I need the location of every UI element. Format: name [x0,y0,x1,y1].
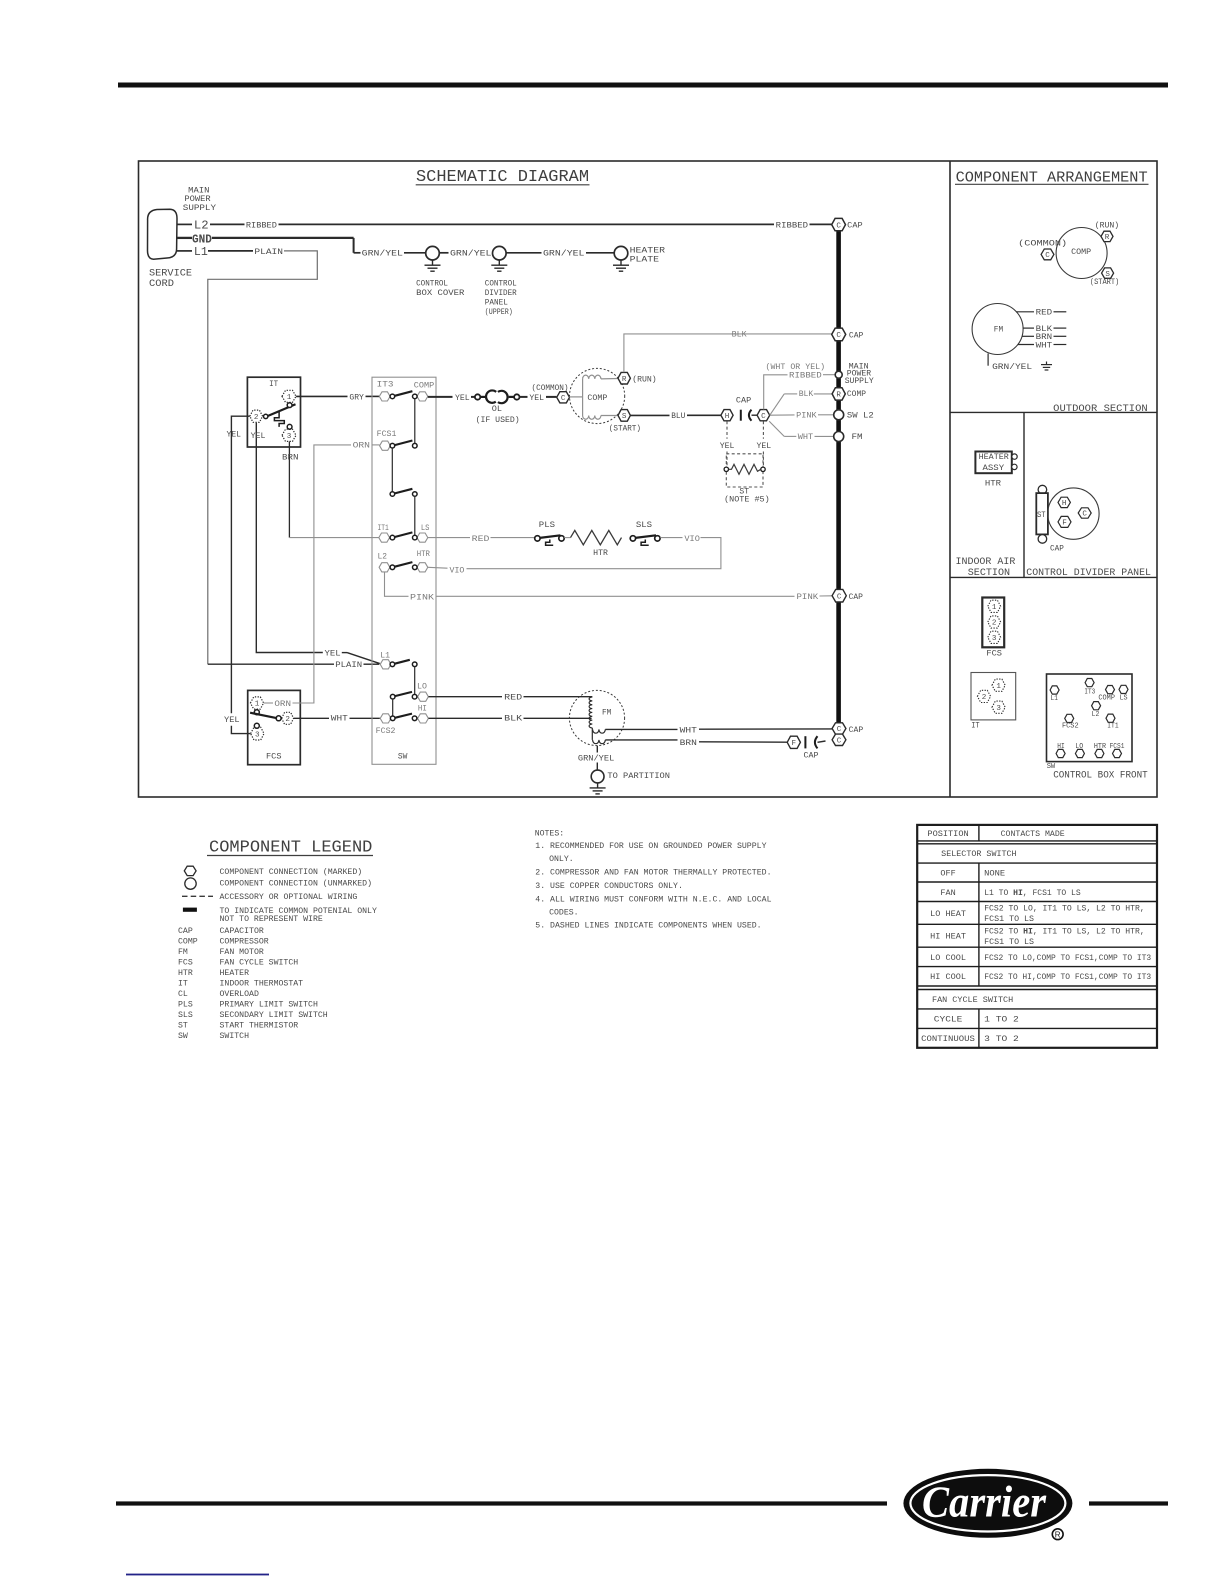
svg-text:H: H [725,413,730,421]
capacitor plate straight [740,410,742,421]
wire GRN/YEL chain [354,252,361,254]
wire brn to IT1 [289,537,378,539]
svg-text:TO PARTITION: TO PARTITION [607,772,670,781]
svg-text:C: C [837,738,842,746]
wire orn riser [293,445,352,703]
svg-text:FM: FM [602,708,611,717]
wire ribbed2 gray [764,375,788,410]
svg-text:GRN/YEL: GRN/YEL [543,249,585,259]
wire blk to R comp [770,394,784,415]
svg-text:PINK: PINK [410,593,434,602]
svg-text:1: 1 [996,683,1001,691]
svg-text:SWITCH: SWITCH [220,1032,250,1041]
svg-text:HTR: HTR [417,550,430,559]
svg-text:RED: RED [504,693,522,702]
primary limit switch PLS [535,536,540,541]
svg-text:BLU: BLU [671,412,685,421]
schematic outer box [139,161,1158,797]
svg-text:YEL: YEL [757,442,772,451]
wire blk to FM [429,717,503,719]
svg-text:IT: IT [269,380,278,389]
bottom rule left [116,1501,887,1505]
svg-text:COMP: COMP [847,390,866,399]
svg-text:COMP: COMP [414,382,434,391]
svg-text:PINK: PINK [797,593,819,602]
svg-text:3: 3 [287,433,292,441]
svg-text:SECTION: SECTION [968,567,1010,578]
svg-text:FCS: FCS [266,753,282,762]
svg-text:POSITION: POSITION [927,830,968,839]
svg-text:FCS: FCS [986,649,1002,658]
outdoor section fan motor [972,304,1023,355]
svg-text:VIO: VIO [684,535,700,544]
terminal FCS-3 [251,727,264,740]
svg-text:3 TO 2: 3 TO 2 [984,1035,1019,1044]
svg-text:F: F [792,740,797,748]
svg-text:WHT: WHT [1036,341,1053,350]
terminal cap C pink [832,589,846,602]
compressor motor COMP [570,368,625,423]
FCS block arr [982,598,1004,648]
bottom blue line [126,1574,269,1576]
svg-text:HTR: HTR [178,969,193,978]
svg-text:L1: L1 [380,651,390,660]
cap circle arr [1048,488,1099,539]
svg-text:CAP: CAP [736,396,751,405]
svg-text:SECONDARY LIMIT SWITCH: SECONDARY LIMIT SWITCH [220,1011,328,1020]
svg-text:COMP: COMP [1098,694,1115,702]
svg-text:GND: GND [192,234,212,247]
svg-text:INDOOR AIR: INDOOR AIR [956,556,1016,567]
svg-text:L2: L2 [1092,711,1100,719]
node control divider panel [493,246,507,260]
wire brn row [605,739,677,741]
svg-text:FAN MOTOR: FAN MOTOR [220,948,264,957]
wire blk from R to cap bus [624,334,832,372]
wire wht (FCS-2 to SW FCS2) [294,717,329,719]
svg-text:R: R [1055,1530,1061,1539]
svg-text:VIO: VIO [450,566,465,575]
svg-text:BLK: BLK [799,390,814,399]
node control box cover [426,246,440,260]
svg-text:R: R [1105,234,1110,242]
arr IT 1 [992,679,1005,691]
svg-text:WHT: WHT [680,726,697,735]
svg-text:C: C [836,332,841,340]
svg-text:SELECTOR SWITCH: SELECTOR SWITCH [941,850,1016,859]
svg-text:BRN: BRN [282,453,299,462]
svg-text:2: 2 [285,716,290,724]
svg-text:BLK: BLK [504,714,522,723]
wire plain bottom to SW L1 [208,663,334,665]
IT block arr [971,673,1016,720]
svg-text:GRY: GRY [349,393,364,402]
svg-text:PANEL: PANEL [485,298,508,307]
capacitor plate curved [749,410,752,421]
svg-text:HTR: HTR [985,480,1001,489]
terminal cap C wht [832,723,846,734]
svg-text:LO HEAT: LO HEAT [930,910,966,919]
svg-text:(RUN): (RUN) [632,374,656,384]
wire yel riser 2 [256,423,323,653]
svg-text:(IF USED): (IF USED) [476,415,520,425]
svg-text:ACCESSORY OR OPTIONAL WIRING: ACCESSORY OR OPTIONAL WIRING [220,893,358,902]
svg-text:SW: SW [398,753,408,762]
svg-text:CONTROL: CONTROL [485,279,517,288]
svg-text:SLS: SLS [636,521,652,530]
svg-text:GRN/YEL: GRN/YEL [992,362,1032,372]
svg-text:CAP: CAP [178,927,193,936]
wire vio loop [467,538,721,569]
arr SW LS [1119,685,1128,693]
wire L2/RIBBED [177,223,193,225]
svg-text:2: 2 [982,694,987,702]
terminal compressor C [557,392,570,403]
svg-text:FAN CYCLE SWITCH: FAN CYCLE SWITCH [932,996,1013,1005]
wire wht row [605,728,677,730]
svg-text:(UPPER): (UPPER) [485,307,513,317]
terminal compressor R [618,372,630,384]
svg-text:Carrier: Carrier [922,1478,1047,1527]
svg-text:CAPACITOR: CAPACITOR [220,927,264,936]
svg-text:SW: SW [178,1032,188,1041]
svg-text:FCS1 TO LS: FCS1 TO LS [984,938,1034,947]
svg-text:FCS2: FCS2 [1062,723,1079,731]
legend circle symbol [185,878,196,889]
switch row IT3-COMP [379,392,390,401]
svg-text:C: C [1045,252,1050,260]
switch row middle [395,489,413,494]
contact IT-1 [287,403,292,408]
svg-text:FAN: FAN [940,889,955,898]
svg-text:CONTROL DIVIDER PANEL: CONTROL DIVIDER PANEL [1026,567,1151,578]
node main power supply [835,371,842,378]
contact FCS-1 [254,710,259,715]
svg-text:5. DASHED LINES INDICATE COMPO: 5. DASHED LINES INDICATE COMPONENTS WHEN… [535,921,761,930]
svg-text:ASSY: ASSY [983,464,1005,473]
wire L1/PLAIN [177,250,193,252]
arr IT 3 [992,701,1005,713]
svg-text:R: R [836,392,841,400]
wire yel to OL [428,396,453,398]
svg-text:PLS: PLS [539,521,555,530]
FCS blade [250,713,277,719]
svg-text:CONTINUOUS: CONTINUOUS [921,1035,975,1044]
svg-text:(WHT OR YEL): (WHT OR YEL) [766,362,826,372]
node FM [834,432,844,442]
svg-text:F: F [1062,520,1067,528]
fan motor FM [569,690,624,745]
svg-text:HEATER: HEATER [220,969,250,978]
svg-text:WHT: WHT [798,433,813,442]
terminal IT-1 [282,390,296,402]
start thermistor arr [1038,485,1047,494]
svg-text:YEL: YEL [251,432,266,441]
capacitor plate straight 2 [804,736,806,748]
svg-text:HTR: HTR [593,549,608,558]
svg-text:ONLY.: ONLY. [549,855,574,864]
svg-text:CONTACTS MADE: CONTACTS MADE [1001,830,1065,839]
svg-text:C: C [761,413,766,421]
terminal cap C top [832,218,846,230]
link C to winding [570,396,583,398]
dashed yel leads to ST [726,421,728,439]
divider control box front [950,576,1157,578]
svg-text:4. ALL WIRING MUST CONFORM WIT: 4. ALL WIRING MUST CONFORM WITH N.E.C. A… [535,895,771,904]
svg-text:PLS: PLS [178,1001,193,1010]
svg-text:IT3: IT3 [1084,689,1095,697]
arr SW FCS2 [1065,714,1074,722]
svg-text:RIBBED: RIBBED [246,221,277,230]
svg-text:FCS2 TO HI, IT1 TO LS, L2 TO H: FCS2 TO HI, IT1 TO LS, L2 TO HTR, [984,927,1145,936]
svg-text:COMPONENT CONNECTION (MARKED): COMPONENT CONNECTION (MARKED) [220,867,363,877]
svg-text:DIVIDER: DIVIDER [485,289,517,298]
svg-text:GRN/YEL: GRN/YEL [578,754,614,764]
arr cap H [1058,497,1070,507]
svg-text:FCS2: FCS2 [376,727,396,736]
switch row L1 [380,660,391,669]
terminal cap C mid [832,328,846,341]
svg-text:IT3: IT3 [377,380,394,389]
svg-text:R: R [622,376,627,384]
svg-text:ST: ST [1037,512,1046,520]
svg-text:PRIMARY LIMIT SWITCH: PRIMARY LIMIT SWITCH [220,1001,318,1010]
svg-text:INDOOR THERMOSTAT: INDOOR THERMOSTAT [220,980,304,989]
svg-text:FAN CYCLE SWITCH: FAN CYCLE SWITCH [220,959,299,968]
svg-text:YEL: YEL [720,442,735,451]
svg-text:(START): (START) [1090,277,1119,287]
svg-text:RED: RED [472,535,490,544]
svg-text:CONTROL: CONTROL [416,279,448,288]
contact IT-3 [287,424,292,429]
contact FCS-3 [254,723,259,728]
start thermistor ST dashed box [726,454,763,487]
arr cap F [1058,516,1071,527]
arr FCS 2 [988,616,1001,628]
fan cycle switch FCS box [248,690,301,764]
wire pink row [385,572,409,596]
ground control divider panel [498,260,500,265]
svg-text:HEATER: HEATER [979,453,1009,462]
svg-text:RED: RED [1036,309,1053,318]
svg-text:FCS2 TO HI,COMP TO FCS1,COMP T: FCS2 TO HI,COMP TO FCS1,COMP TO IT3 [984,973,1151,982]
arr SW IT3 [1085,679,1094,687]
arr SW L1 [1050,686,1059,694]
wire red to FM [429,696,503,698]
svg-text:FCS2 TO LO,COMP TO FCS1,COMP T: FCS2 TO LO,COMP TO FCS1,COMP TO IT3 [984,954,1151,963]
terminal FCS-1 [250,697,263,709]
svg-text:L2: L2 [378,552,388,561]
terminal IT-2 [250,410,263,422]
wire red row [428,537,470,539]
arr cap C [1078,508,1091,518]
svg-text:1: 1 [255,701,260,709]
svg-text:IT1: IT1 [1107,723,1119,731]
wire wht to FM node [769,421,784,436]
svg-text:(NOTE #5): (NOTE #5) [724,494,770,504]
svg-text:3: 3 [255,731,260,739]
svg-text:OL: OL [492,405,502,414]
switch row LO [418,692,429,701]
outdoor section compressor [1056,228,1107,279]
svg-text:CYCLE: CYCLE [934,1016,963,1025]
svg-text:2: 2 [254,414,259,422]
svg-text:2. COMPRESSOR AND FAN MOTOR TH: 2. COMPRESSOR AND FAN MOTOR THERMALLY PR… [535,869,771,878]
svg-text:C: C [837,593,842,601]
comp winding [582,379,584,416]
arr SW L2 [1092,702,1101,710]
divider indoor/control [1023,412,1025,577]
top rule [118,83,1168,88]
wire orn [264,702,273,704]
terminal cap C brn [832,734,846,745]
svg-text:PINK: PINK [796,412,817,421]
svg-text:CAP: CAP [1050,544,1064,553]
svg-text:YEL: YEL [224,716,240,725]
wire yel riser 1 (IT-2 to FCS-3) [231,416,249,713]
svg-text:CAP: CAP [804,751,819,760]
svg-text:IT: IT [971,722,979,731]
svg-text:CAP: CAP [849,331,864,340]
terminal cap H [721,410,733,421]
svg-text:FM: FM [994,325,1003,334]
svg-text:1 TO 2: 1 TO 2 [984,1016,1019,1025]
svg-text:GRN/YEL: GRN/YEL [450,249,492,259]
svg-text:GRN/YEL: GRN/YEL [362,249,403,259]
arr grn/yel ground [987,354,989,366]
svg-text:L2: L2 [194,220,209,233]
wire gry (IT-1 to SW IT3) [296,395,347,397]
svg-text:FCS2 TO LO, IT1 TO LS, L2 TO H: FCS2 TO LO, IT1 TO LS, L2 TO HTR, [984,905,1144,914]
svg-text:YEL: YEL [227,431,242,440]
svg-text:HI COOL: HI COOL [930,973,966,982]
svg-text:HI HEAT: HI HEAT [930,933,966,942]
svg-text:PLATE: PLATE [630,256,660,265]
service cord [147,209,177,259]
arr terminal C [1041,249,1054,260]
svg-text:COMPONENT CONNECTION (UNMARKED: COMPONENT CONNECTION (UNMARKED) [220,878,373,888]
svg-text:FCS1 TO LS: FCS1 TO LS [984,915,1034,924]
svg-text:ORN: ORN [274,700,291,709]
legend hex symbol [184,866,196,875]
link L1 to LO contact [414,667,416,695]
svg-text:YEL: YEL [455,394,470,403]
svg-text:IT1: IT1 [378,524,389,533]
svg-text:3: 3 [996,705,1001,713]
link mid to LS contact [414,496,416,535]
svg-text:LO: LO [417,682,427,691]
terminal cap C [757,410,770,421]
heater assy [975,452,1011,474]
svg-text:L1 TO HI, FCS1 TO LS: L1 TO HI, FCS1 TO LS [984,889,1081,898]
svg-text:IT: IT [178,980,188,989]
svg-text:SUPPLY: SUPPLY [183,204,216,213]
arr FCS 3 [988,631,1001,643]
bottom rule right [1089,1501,1168,1505]
svg-text:FCS: FCS [178,959,193,968]
node to partition [591,770,604,783]
svg-text:HEATER: HEATER [630,247,665,256]
svg-text:3. USE COPPER CONDUCTORS ONLY.: 3. USE COPPER CONDUCTORS ONLY. [535,882,683,891]
svg-text:(COMMON): (COMMON) [1018,239,1067,249]
svg-text:C: C [837,726,842,734]
svg-text:L1: L1 [1051,695,1059,703]
svg-text:(START): (START) [609,423,641,433]
svg-text:2: 2 [992,620,997,628]
wire plain run down [208,251,317,664]
svg-text:L1: L1 [194,246,208,259]
svg-text:ST: ST [178,1021,188,1030]
selector switch SW box [372,377,436,764]
contact FCS-2 [276,716,281,721]
svg-text:CAP: CAP [849,726,864,735]
svg-text:S: S [622,413,627,421]
svg-text:SUPPLY: SUPPLY [845,377,874,386]
heater HTR resistor [571,530,622,544]
svg-text:PLAIN: PLAIN [254,248,283,257]
terminal FCS-2 [282,712,294,724]
switch row FCS2-HI [380,714,391,723]
svg-text:BLK: BLK [732,331,747,340]
svg-text:OVERLOAD: OVERLOAD [220,990,259,999]
terminal compressor S [618,410,630,422]
contacts table [917,825,1157,1048]
arr SW IT1 [1106,714,1115,722]
svg-text:OFF: OFF [940,869,955,878]
svg-text:SW L2: SW L2 [847,412,874,421]
svg-text:SLS: SLS [178,1011,193,1020]
contact IT-2 [264,414,268,418]
svg-text:C: C [561,395,566,403]
svg-text:BOX COVER: BOX COVER [416,289,464,298]
node R comp [832,388,845,400]
svg-text:FM: FM [178,948,188,957]
svg-text:START THERMISTOR: START THERMISTOR [220,1021,299,1030]
svg-text:COMPRESSOR: COMPRESSOR [220,938,269,947]
ground heater plate [620,260,622,265]
switch row L2-HTR [379,563,390,572]
svg-text:YEL: YEL [325,650,341,659]
svg-text:LS: LS [421,524,430,533]
link LO to FCS2 contact [392,699,394,716]
svg-text:CODES.: CODES. [549,909,579,918]
node SW L2 [834,410,844,420]
svg-text:YEL: YEL [529,394,544,403]
arr terminal S [1102,268,1114,278]
terminal cap F [787,736,800,748]
link COMP to FCS1 contact [414,399,416,444]
wire GND [177,237,193,239]
ground control box cover [432,260,434,265]
svg-text:(RUN): (RUN) [1095,221,1119,231]
link FCS1 to mid contact [391,448,393,492]
IT bimetal zigzag [274,412,284,427]
svg-text:FCS1: FCS1 [377,430,397,439]
wire blu [630,414,669,416]
svg-text:1: 1 [992,604,997,612]
svg-text:PLAIN: PLAIN [335,661,362,670]
ground partition [597,783,599,788]
svg-text:C: C [1082,511,1087,519]
svg-text:RIBBED: RIBBED [776,221,808,230]
IT switch blade [268,404,296,416]
carrier logo [903,1469,1072,1538]
svg-text:NOT TO REPRESENT WIRE: NOT TO REPRESENT WIRE [220,915,323,924]
svg-text:WHT: WHT [331,714,348,723]
svg-text:COMP: COMP [587,394,607,403]
ST resistor [729,464,761,474]
svg-text:NOTES:: NOTES: [535,829,565,838]
